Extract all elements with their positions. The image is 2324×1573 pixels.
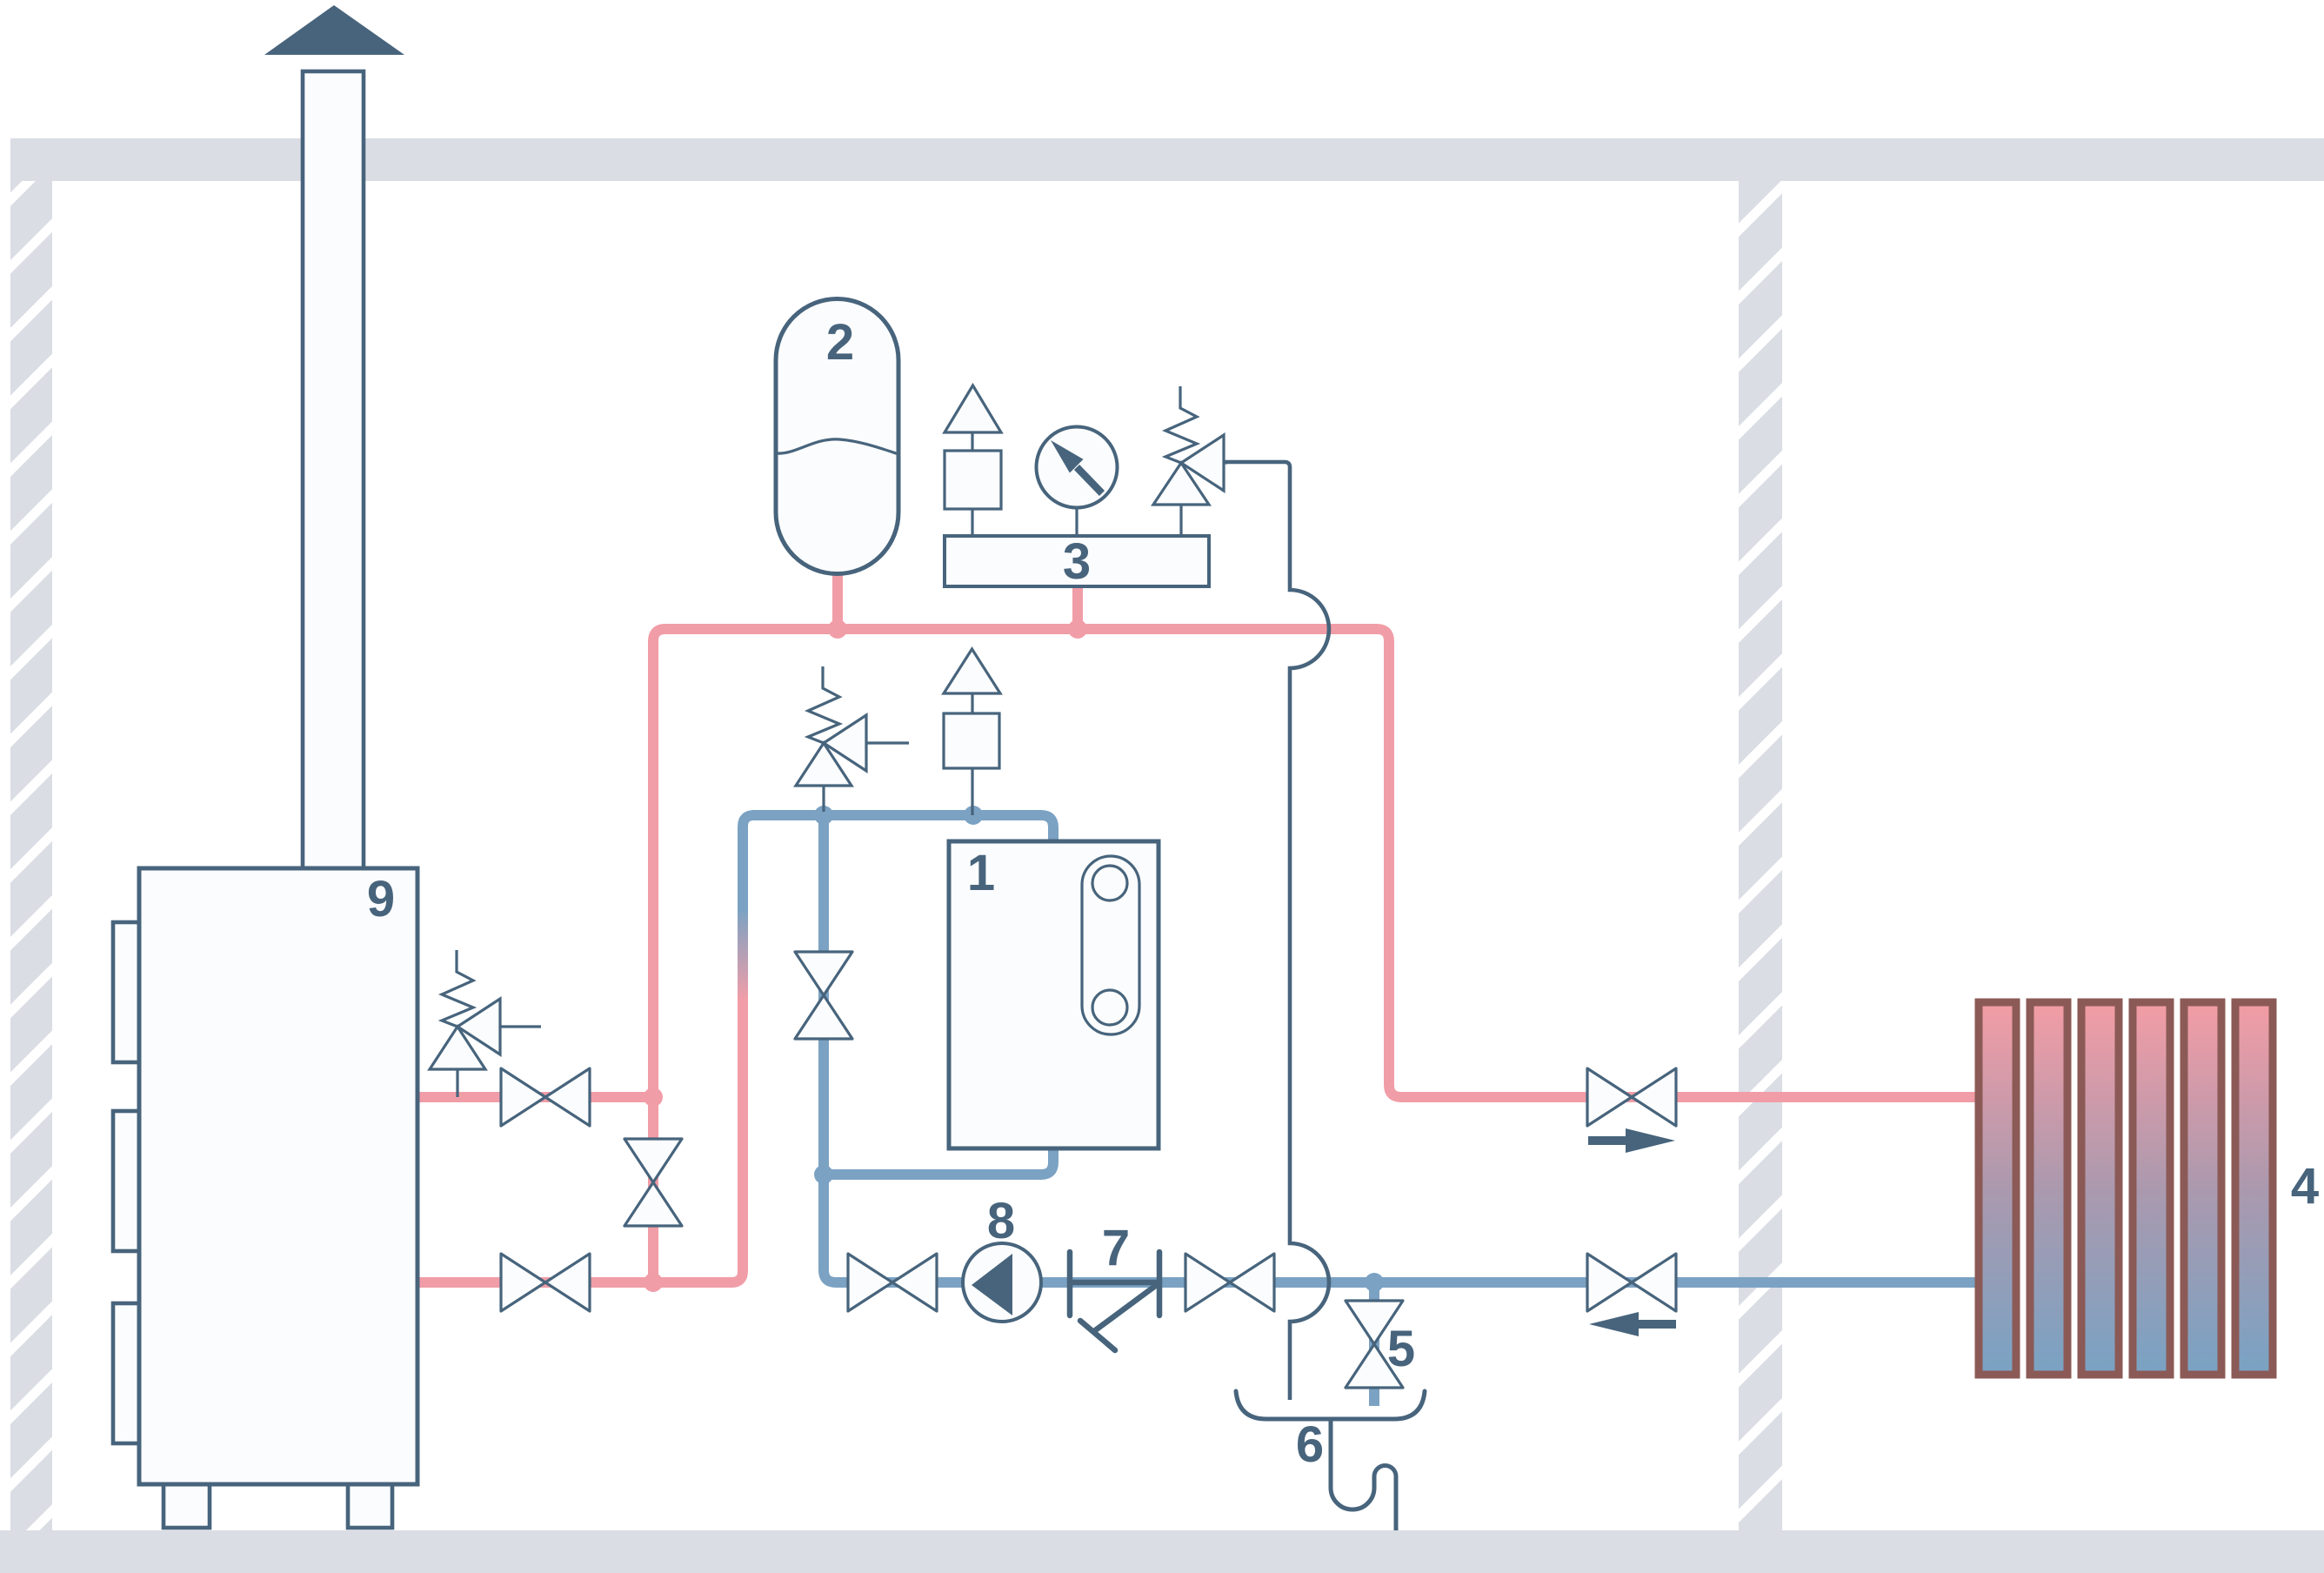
svg-text:6: 6 — [1296, 1416, 1324, 1473]
svg-text:5: 5 — [1387, 1321, 1415, 1377]
svg-text:8: 8 — [987, 1193, 1015, 1249]
svg-text:2: 2 — [826, 314, 854, 371]
svg-text:7: 7 — [1102, 1220, 1130, 1276]
svg-text:9: 9 — [367, 871, 395, 927]
svg-text:1: 1 — [967, 845, 995, 901]
svg-text:3: 3 — [1063, 533, 1091, 590]
svg-text:4: 4 — [2291, 1158, 2319, 1215]
